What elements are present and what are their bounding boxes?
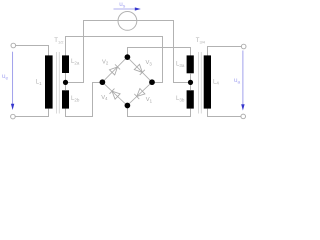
svg-text:V4: V4 bbox=[101, 95, 108, 101]
transformer T1/2 winding L2b bbox=[62, 90, 69, 108]
transformer T1/2 winding L1 bbox=[45, 55, 53, 108]
node left bbox=[100, 79, 106, 85]
arrow u_s bbox=[114, 7, 141, 10]
source u_s circle bbox=[118, 12, 137, 31]
svg-text:L3b: L3b bbox=[176, 96, 185, 102]
transformer T1/2 center tap junction bbox=[63, 80, 68, 85]
svg-text:L3a: L3a bbox=[176, 62, 185, 68]
wire bottom node to L3b bbox=[128, 106, 191, 117]
svg-text:L2a: L2a bbox=[71, 59, 80, 65]
node top bbox=[125, 54, 131, 60]
svg-text:V3: V3 bbox=[146, 60, 153, 66]
svg-text:T1/2: T1/2 bbox=[54, 38, 64, 45]
diode V1 bbox=[134, 89, 145, 100]
transformer T3/4 center tap junction bbox=[188, 80, 193, 85]
wire carrier left to center tap T1 bbox=[66, 21, 118, 83]
wire output bottom bbox=[208, 109, 241, 117]
terminal output top bbox=[241, 44, 246, 49]
wire diamond edge bottom-left bbox=[102, 82, 127, 105]
wire input top bbox=[16, 46, 49, 56]
svg-text:L4: L4 bbox=[213, 79, 219, 85]
terminal output bottom bbox=[241, 114, 246, 119]
transformer T3/4 winding L3b bbox=[187, 90, 194, 108]
wire output top bbox=[208, 47, 242, 56]
wire diamond edge top-left bbox=[102, 57, 127, 82]
wire carrier right to center tap T3 bbox=[137, 21, 191, 83]
transformer T1/2 core bbox=[57, 52, 60, 114]
svg-text:us: us bbox=[119, 1, 126, 9]
transformer T1/2 winding L2a bbox=[62, 55, 69, 73]
svg-text:ue: ue bbox=[2, 73, 9, 81]
arrow u_a bbox=[241, 51, 244, 111]
wire input bottom bbox=[15, 109, 49, 117]
wire L2b bottom to left node bbox=[66, 83, 103, 117]
diode V3 bbox=[134, 64, 145, 75]
wire diamond edge top-right bbox=[127, 57, 152, 82]
node bottom bbox=[125, 103, 131, 109]
svg-text:L1: L1 bbox=[36, 80, 42, 86]
transformer T3/4 winding L4 bbox=[204, 55, 211, 108]
transformer T3/4 core bbox=[199, 52, 202, 114]
diode V2 bbox=[109, 64, 120, 75]
svg-text:ua: ua bbox=[234, 77, 241, 85]
transformer T3/4 winding L3a bbox=[187, 55, 194, 73]
svg-text:V2: V2 bbox=[102, 59, 109, 65]
svg-text:L2b: L2b bbox=[71, 96, 80, 102]
wire top node to L3a bbox=[128, 48, 191, 58]
svg-text:T3/4: T3/4 bbox=[196, 38, 206, 45]
arrow u_e bbox=[11, 52, 14, 110]
svg-text:V1: V1 bbox=[146, 97, 153, 103]
wire carrier through source bbox=[118, 20, 137, 22]
transformer T1/2 center tap lead bbox=[65, 73, 67, 90]
wire L2a top to right node bbox=[66, 37, 163, 83]
transformer T3/4 center tap lead bbox=[190, 73, 192, 90]
diode V4 bbox=[109, 89, 120, 100]
node right bbox=[149, 79, 155, 85]
terminal input bottom bbox=[11, 114, 16, 119]
wire diamond edge bottom-right bbox=[127, 82, 152, 105]
terminal input top bbox=[11, 43, 16, 48]
